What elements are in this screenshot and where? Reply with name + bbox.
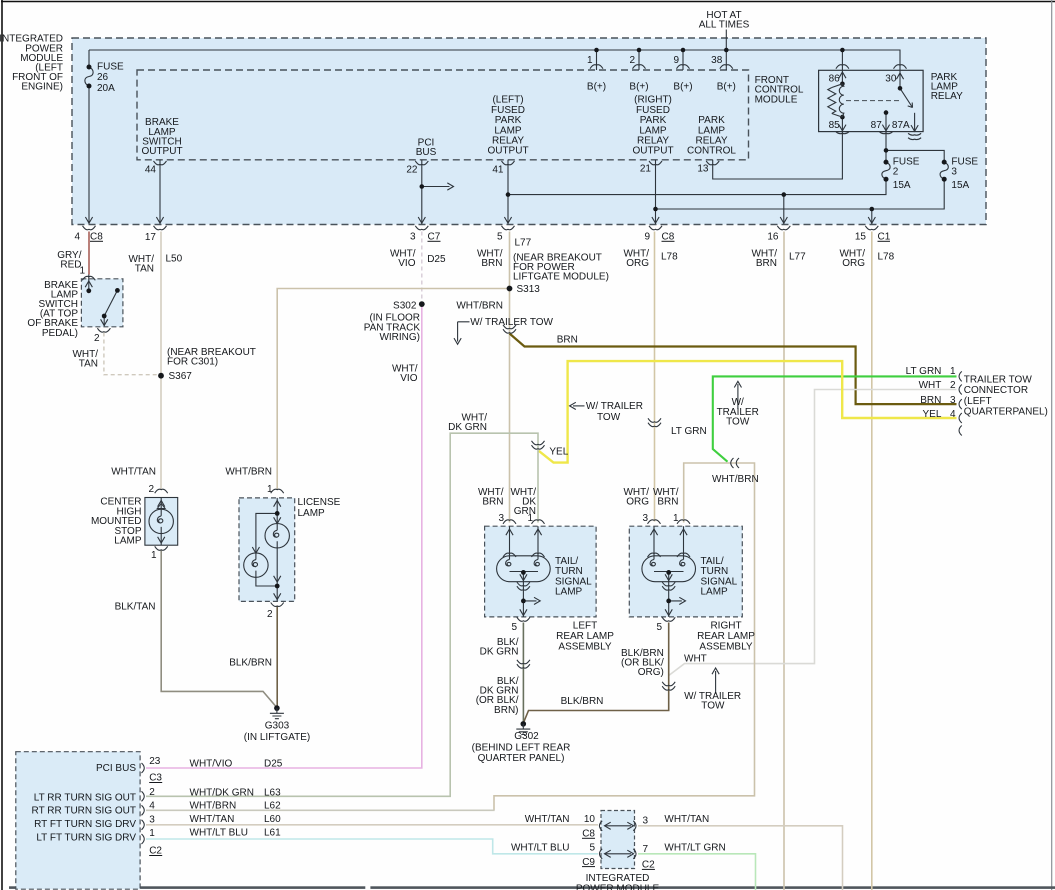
svg-text:REAR LAMP: REAR LAMP xyxy=(556,631,614,642)
svg-text:4: 4 xyxy=(74,232,80,243)
svg-text:FOR C301): FOR C301) xyxy=(167,357,218,368)
svg-text:VIO: VIO xyxy=(400,373,417,384)
svg-text:L62: L62 xyxy=(264,800,281,811)
svg-text:ALL TIMES: ALL TIMES xyxy=(699,19,750,30)
svg-text:RT FT TURN SIG DRV: RT FT TURN SIG DRV xyxy=(34,819,136,830)
svg-text:W/ TRAILER: W/ TRAILER xyxy=(586,401,643,412)
svg-text:38: 38 xyxy=(711,55,723,66)
svg-text:WHT/VIO: WHT/VIO xyxy=(190,759,233,770)
svg-text:OUTPUT: OUTPUT xyxy=(632,146,673,157)
svg-text:2: 2 xyxy=(950,380,956,391)
svg-text:ORG): ORG) xyxy=(638,667,664,678)
svg-text:L78: L78 xyxy=(878,252,895,263)
svg-text:S313: S313 xyxy=(517,284,541,295)
svg-text:BLK/BRN: BLK/BRN xyxy=(229,658,272,669)
svg-text:1: 1 xyxy=(673,513,679,524)
svg-text:WHT/BRN: WHT/BRN xyxy=(190,800,237,811)
svg-text:OUTPUT: OUTPUT xyxy=(141,146,182,157)
svg-text:5: 5 xyxy=(589,842,595,853)
svg-text:ORG: ORG xyxy=(626,497,649,508)
svg-text:3: 3 xyxy=(951,167,957,178)
svg-text:10: 10 xyxy=(584,814,596,825)
svg-text:7: 7 xyxy=(643,844,649,855)
svg-text:B(+): B(+) xyxy=(587,82,606,93)
svg-text:TOW: TOW xyxy=(726,417,750,428)
svg-text:INTEGRATED: INTEGRATED xyxy=(586,873,650,884)
svg-text:3: 3 xyxy=(643,816,649,827)
svg-text:1: 1 xyxy=(79,266,85,277)
svg-text:22: 22 xyxy=(406,164,418,175)
svg-text:1: 1 xyxy=(527,513,533,524)
svg-text:LAMP: LAMP xyxy=(701,587,729,598)
svg-text:LAMP: LAMP xyxy=(555,587,583,598)
svg-text:L63: L63 xyxy=(264,787,281,798)
svg-text:ENGINE): ENGINE) xyxy=(21,82,63,93)
svg-text:L77: L77 xyxy=(789,252,806,263)
svg-text:RT RR TURN SIG OUT: RT RR TURN SIG OUT xyxy=(32,806,136,817)
svg-text:G303: G303 xyxy=(265,721,290,732)
svg-text:L50: L50 xyxy=(166,253,183,264)
svg-text:4: 4 xyxy=(950,409,956,420)
svg-text:ASSEMBLY: ASSEMBLY xyxy=(699,642,752,653)
svg-text:WHT: WHT xyxy=(684,654,707,665)
svg-text:LT GRN: LT GRN xyxy=(906,366,942,377)
svg-text:G302: G302 xyxy=(514,731,539,742)
svg-text:DK GRN: DK GRN xyxy=(448,422,487,433)
svg-text:RELAY: RELAY xyxy=(931,91,963,102)
svg-text:BRN: BRN xyxy=(920,395,941,406)
svg-text:LT RR TURN SIG OUT: LT RR TURN SIG OUT xyxy=(34,793,136,804)
svg-text:1: 1 xyxy=(267,484,273,495)
svg-text:S367: S367 xyxy=(169,371,193,382)
svg-text:ASSEMBLY: ASSEMBLY xyxy=(558,642,611,653)
svg-text:LAMP: LAMP xyxy=(298,508,326,519)
svg-text:87: 87 xyxy=(871,120,883,131)
svg-text:15A: 15A xyxy=(893,180,911,191)
svg-text:87A: 87A xyxy=(892,120,910,131)
svg-text:13: 13 xyxy=(697,163,709,174)
svg-text:2: 2 xyxy=(94,333,100,344)
svg-text:CONTROL: CONTROL xyxy=(687,146,736,157)
svg-text:B(+): B(+) xyxy=(717,82,736,93)
svg-text:WHT/DK GRN: WHT/DK GRN xyxy=(190,787,254,798)
svg-text:QUARTERPANEL): QUARTERPANEL) xyxy=(964,407,1048,418)
svg-text:BLK/BRN: BLK/BRN xyxy=(561,696,604,707)
svg-text:1: 1 xyxy=(151,550,157,561)
svg-text:WHT: WHT xyxy=(919,380,942,391)
svg-text:BRN: BRN xyxy=(557,334,578,345)
svg-text:85: 85 xyxy=(829,120,841,131)
svg-text:TOW: TOW xyxy=(597,412,621,423)
svg-text:TAN: TAN xyxy=(79,359,98,370)
svg-text:23: 23 xyxy=(149,756,161,767)
svg-text:D25: D25 xyxy=(427,254,446,265)
svg-text:DK GRN: DK GRN xyxy=(480,647,519,658)
svg-text:17: 17 xyxy=(145,232,157,243)
svg-text:2: 2 xyxy=(893,167,899,178)
svg-text:15: 15 xyxy=(855,232,867,243)
svg-text:ORG: ORG xyxy=(626,258,649,269)
svg-text:44: 44 xyxy=(145,164,157,175)
svg-text:1: 1 xyxy=(587,55,593,66)
svg-text:(BEHIND LEFT REAR: (BEHIND LEFT REAR xyxy=(472,742,571,753)
svg-text:WHT/LT GRN: WHT/LT GRN xyxy=(664,842,725,853)
svg-text:BRN: BRN xyxy=(756,258,777,269)
svg-text:L78: L78 xyxy=(661,252,678,263)
svg-text:WHT/BRN: WHT/BRN xyxy=(456,301,503,312)
svg-text:5: 5 xyxy=(497,232,503,243)
svg-text:OUTPUT: OUTPUT xyxy=(487,146,528,157)
svg-text:WHT/TAN: WHT/TAN xyxy=(111,466,156,477)
svg-text:LICENSE: LICENSE xyxy=(298,497,341,508)
svg-text:30: 30 xyxy=(885,74,897,85)
svg-text:ORG: ORG xyxy=(842,258,865,269)
svg-text:9: 9 xyxy=(673,55,679,66)
svg-text:2: 2 xyxy=(629,55,635,66)
svg-text:BRN: BRN xyxy=(482,497,503,508)
svg-text:BLK/TAN: BLK/TAN xyxy=(115,602,156,613)
svg-text:W/ TRAILER TOW: W/ TRAILER TOW xyxy=(470,317,553,328)
svg-text:1: 1 xyxy=(950,366,956,377)
svg-text:3: 3 xyxy=(498,513,504,524)
svg-text:2: 2 xyxy=(148,484,154,495)
svg-text:D25: D25 xyxy=(264,759,283,770)
svg-text:86: 86 xyxy=(829,74,841,85)
svg-text:MODULE: MODULE xyxy=(755,94,798,105)
svg-text:POWER MODULE: POWER MODULE xyxy=(576,884,660,890)
svg-text:WHT/TAN: WHT/TAN xyxy=(190,814,235,825)
svg-text:3: 3 xyxy=(950,395,956,406)
svg-text:BUS: BUS xyxy=(416,147,437,158)
svg-text:WHT/TAN: WHT/TAN xyxy=(525,814,570,825)
svg-text:WHT/BRN: WHT/BRN xyxy=(712,474,759,485)
svg-text:WIRING): WIRING) xyxy=(379,332,420,343)
svg-text:3: 3 xyxy=(410,232,416,243)
svg-text:TRAILER TOW: TRAILER TOW xyxy=(964,374,1033,385)
svg-text:41: 41 xyxy=(492,164,504,175)
svg-text:9: 9 xyxy=(644,232,650,243)
svg-text:B(+): B(+) xyxy=(629,82,648,93)
svg-text:TOW: TOW xyxy=(701,701,725,712)
svg-text:QUARTER PANEL): QUARTER PANEL) xyxy=(478,753,565,764)
svg-text:YEL: YEL xyxy=(922,409,941,420)
svg-text:BRN): BRN) xyxy=(494,705,518,716)
svg-text:BRN: BRN xyxy=(657,497,678,508)
svg-text:BRN: BRN xyxy=(481,258,502,269)
svg-text:CONNECTOR: CONNECTOR xyxy=(964,385,1028,396)
svg-text:RED: RED xyxy=(60,259,81,270)
svg-text:LEFT: LEFT xyxy=(573,621,597,632)
svg-text:5: 5 xyxy=(511,622,517,633)
svg-text:3: 3 xyxy=(642,513,648,524)
svg-text:L77: L77 xyxy=(515,238,532,249)
svg-text:REAR LAMP: REAR LAMP xyxy=(697,631,755,642)
svg-text:VIO: VIO xyxy=(398,258,415,269)
svg-text:3: 3 xyxy=(149,815,155,826)
svg-text:4: 4 xyxy=(149,801,155,812)
svg-text:15A: 15A xyxy=(951,180,969,191)
svg-text:1: 1 xyxy=(149,828,155,839)
svg-text:B(+): B(+) xyxy=(673,82,692,93)
svg-text:5: 5 xyxy=(656,622,662,633)
svg-text:S302: S302 xyxy=(393,300,417,311)
svg-text:YEL: YEL xyxy=(549,447,568,458)
svg-text:LT GRN: LT GRN xyxy=(671,426,707,437)
svg-text:L61: L61 xyxy=(264,828,281,839)
svg-text:2: 2 xyxy=(267,609,273,620)
svg-text:TAN: TAN xyxy=(135,263,154,274)
svg-text:(IN LIFTGATE): (IN LIFTGATE) xyxy=(244,732,310,743)
svg-text:WHT/TAN: WHT/TAN xyxy=(664,814,709,825)
svg-text:LIFTGATE MODULE): LIFTGATE MODULE) xyxy=(513,272,609,283)
svg-text:WHT/LT BLU: WHT/LT BLU xyxy=(190,828,249,839)
svg-text:21: 21 xyxy=(640,163,652,174)
svg-text:2: 2 xyxy=(149,787,155,798)
svg-text:16: 16 xyxy=(767,232,779,243)
svg-text:26: 26 xyxy=(97,72,109,83)
svg-text:WHT/BRN: WHT/BRN xyxy=(225,466,272,477)
svg-text:FUSE: FUSE xyxy=(97,62,124,73)
svg-text:PEDAL): PEDAL) xyxy=(42,328,78,339)
svg-text:WHT/LT BLU: WHT/LT BLU xyxy=(511,842,570,853)
svg-text:L60: L60 xyxy=(264,814,281,825)
svg-text:LAMP: LAMP xyxy=(114,536,142,547)
svg-text:20A: 20A xyxy=(97,83,115,94)
svg-text:RIGHT: RIGHT xyxy=(710,621,741,632)
svg-text:(LEFT: (LEFT xyxy=(964,396,992,407)
svg-text:PCI BUS: PCI BUS xyxy=(96,763,136,774)
svg-text:LT FT TURN SIG DRV: LT FT TURN SIG DRV xyxy=(36,833,136,844)
